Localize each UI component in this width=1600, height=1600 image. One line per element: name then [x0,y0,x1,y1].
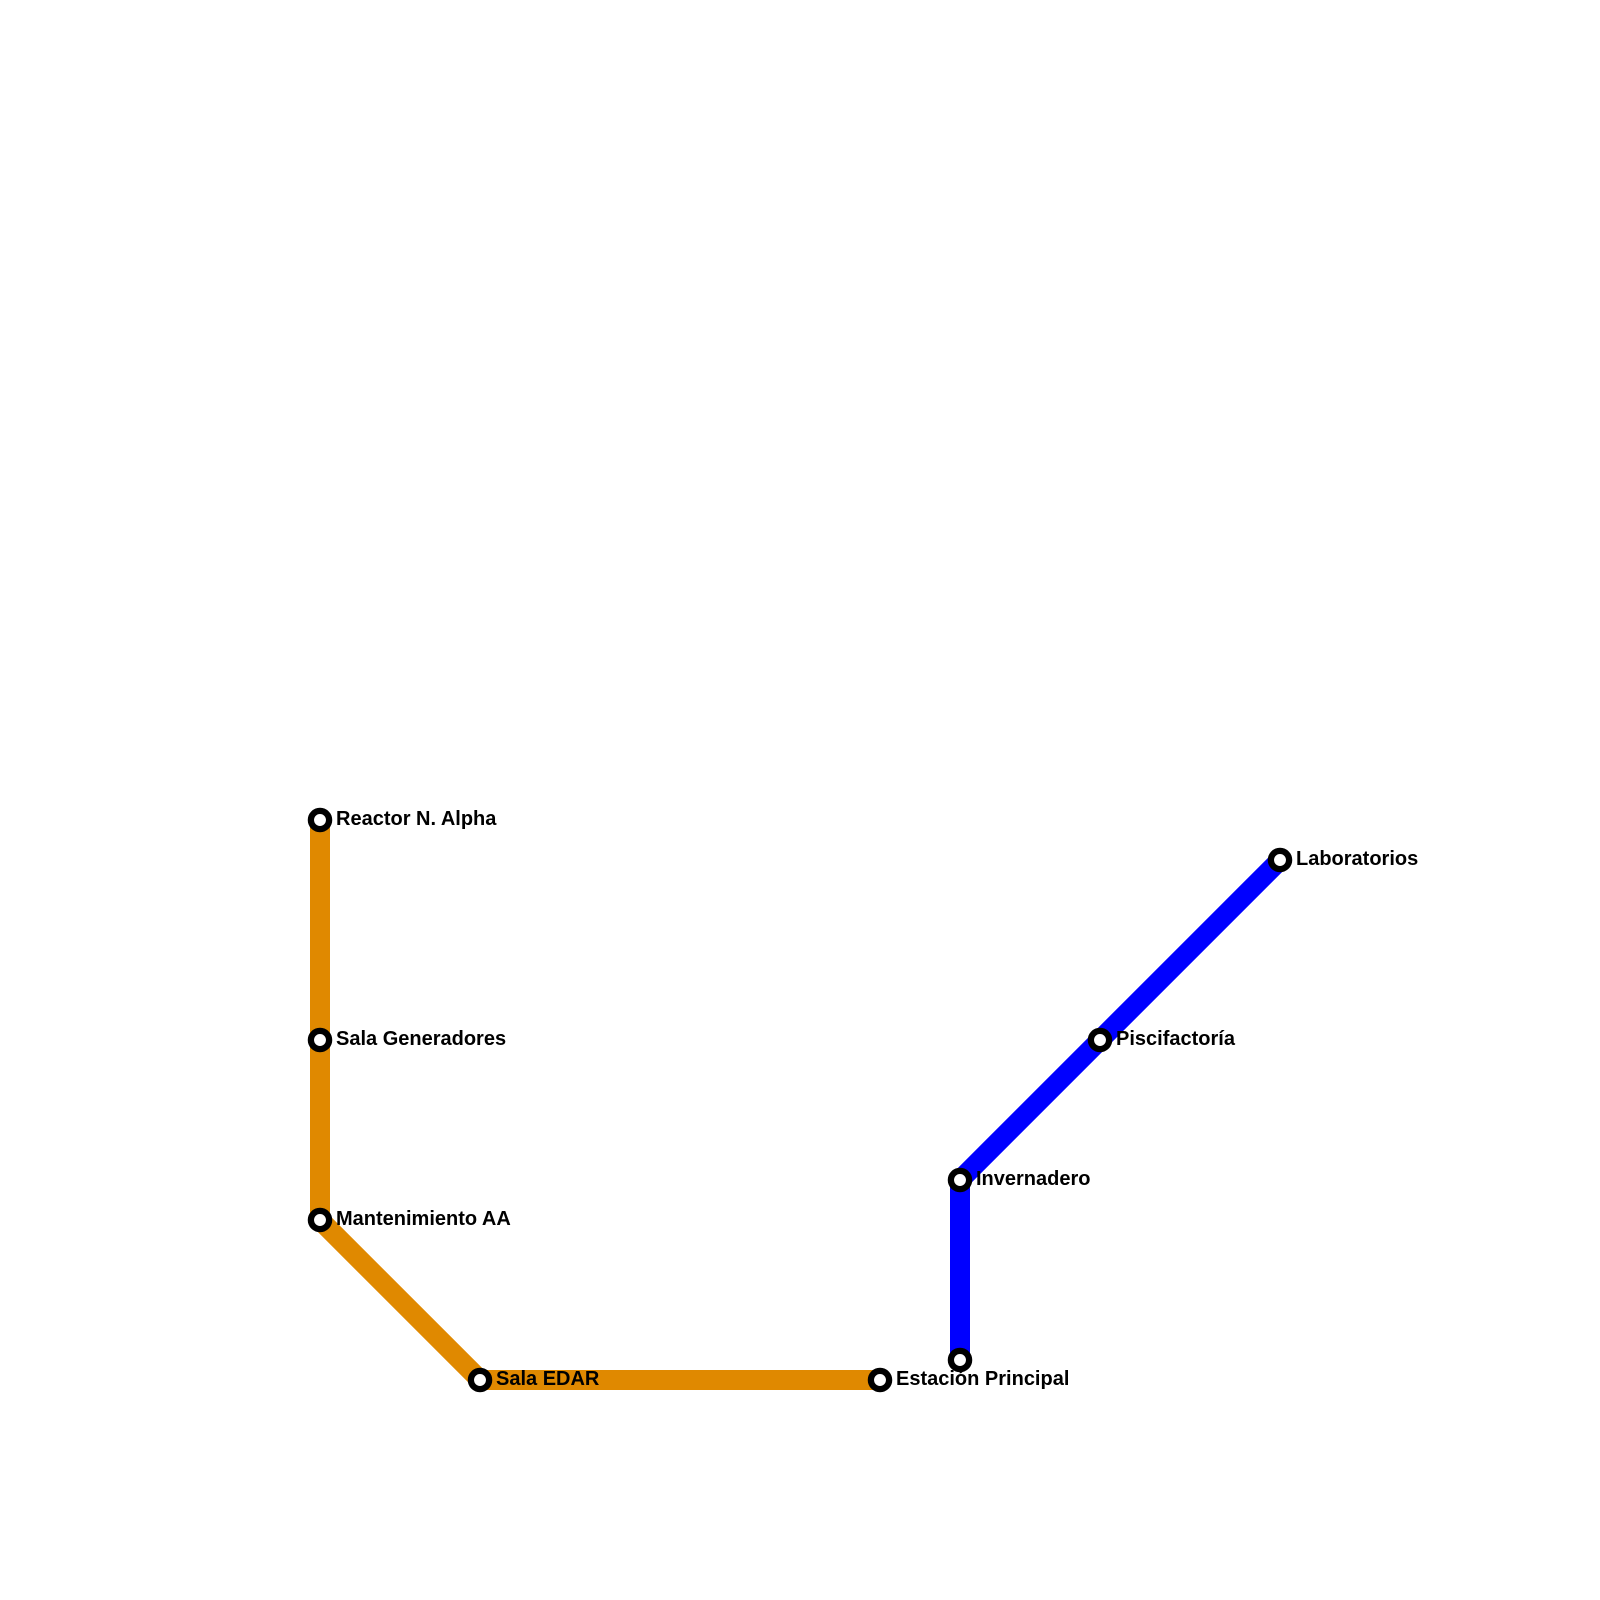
svg-text:Sala Generadores: Sala Generadores [336,1028,506,1050]
station Estación Principal (orange terminus) [871,1371,889,1389]
station Reactor N. Alpha [311,811,329,829]
station Invernadero [951,1171,969,1189]
svg-text:Mantenimiento AA: Mantenimiento AA [336,1208,511,1230]
station Sala EDAR [471,1371,489,1389]
svg-text:Sala EDAR: Sala EDAR [496,1368,600,1390]
blue line: Estación Principal - Invernadero - Piscifactoría - Laboratorios [960,860,1280,1360]
station Laboratorios [1271,851,1289,869]
station Mantenimiento AA [311,1211,329,1229]
svg-text:Reactor N. Alpha: Reactor N. Alpha [336,808,497,830]
svg-text:Laboratorios: Laboratorios [1296,848,1418,870]
orange line: Reactor N. Alpha - Sala Generadores - Mantenimiento AA - Sala EDAR - Estación Principal [320,820,880,1380]
svg-text:Estación Principal: Estación Principal [896,1368,1069,1390]
station Sala Generadores [311,1031,329,1049]
station Estación Principal (blue terminus) [951,1351,969,1369]
svg-text:Piscifactoría: Piscifactoría [1116,1028,1236,1050]
svg-text:Invernadero: Invernadero [976,1168,1090,1190]
station Piscifactoría [1091,1031,1109,1049]
